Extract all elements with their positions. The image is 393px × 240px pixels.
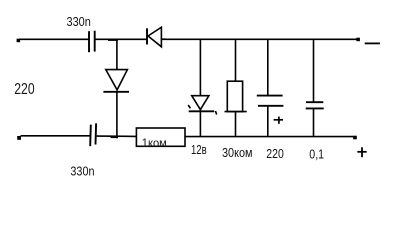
terminal dot top-left: [17, 39, 21, 43]
wire: top-left terminal to C1: [19, 38, 89, 40]
node: top junction tick: [108, 39, 118, 41]
svg-text:330n: 330n: [70, 164, 94, 179]
wire: top node down to diode D2: [116, 39, 118, 69]
wire: C1 to diode D1 cathode (through top node): [96, 38, 148, 40]
label + polarity of C3: [274, 117, 283, 124]
wire: zener VD1 down to bottom rail: [199, 110, 201, 137]
diode D2 (vertical, anode top, cathode bottom): [103, 70, 129, 92]
capacitor C4 0,1: [306, 102, 324, 108]
node: bottom junction tick: [111, 136, 119, 138]
resistor R2 30ком (vertical box): [225, 81, 247, 111]
wire: top rail down to resistor R2: [235, 39, 237, 81]
zener diode VD1 (12в): [188, 96, 217, 115]
wire: resistor R2 down to bottom rail: [235, 112, 237, 137]
svg-text:0,1: 0,1: [309, 148, 324, 162]
terminal dot bottom-right: [353, 136, 357, 140]
wire: top rail down to capacitor C4: [313, 39, 315, 102]
svg-text:1ком: 1ком: [142, 136, 167, 150]
label plus (output polarity): [357, 147, 366, 157]
capacitor C1 330n (top left): [89, 31, 95, 53]
wire: capacitor C3 down to bottom rail: [267, 106, 269, 137]
diode D1 (top rail, cathode bar left, triangle pointing left): [147, 27, 166, 47]
capacitor C3 220 electrolytic: [257, 96, 284, 106]
terminal dot top-right: [356, 38, 360, 42]
capacitor C2 330n (bottom left): [90, 123, 96, 146]
resistor R1 1ком (horizontal box): [136, 128, 185, 146]
wire: top rail down to zener VD1: [199, 39, 201, 95]
svg-text:12в: 12в: [191, 142, 207, 157]
wire: bottom rail from R1 to bottom-right terminal: [185, 136, 354, 138]
wire: C2 to resistor R1 (through bottom node): [97, 135, 137, 137]
svg-text:220: 220: [266, 147, 284, 161]
wire: capacitor C4 down to bottom rail: [313, 108, 315, 136]
wire: top rail from D1 to top-right terminal: [162, 38, 357, 40]
wire: bottom-left terminal to C2: [21, 135, 90, 137]
terminal dot bottom-left: [17, 136, 21, 140]
svg-text:30ком: 30ком: [222, 146, 253, 160]
wire: top rail down to capacitor C3: [267, 39, 269, 95]
svg-text:220: 220: [14, 81, 35, 98]
label minus (output polarity): [365, 42, 380, 44]
svg-text:330n: 330n: [67, 14, 91, 29]
wire: diode D2 cathode down to bottom rail: [116, 92, 118, 139]
